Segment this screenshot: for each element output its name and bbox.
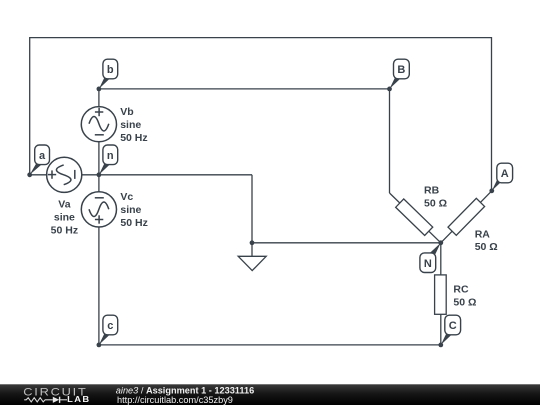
wire b to Vb top [98, 89, 100, 108]
svg-text:aine3 / Assignment 1 - 1233111: aine3 / Assignment 1 - 12331116 [116, 385, 254, 395]
svg-text:n: n [107, 150, 114, 162]
footer bar [0, 384, 540, 405]
svg-text:http://circuitlab.com/c35zby9: http://circuitlab.com/c35zby9 [117, 395, 233, 405]
svg-text:A: A [501, 168, 509, 180]
resistor RB [396, 199, 433, 235]
label RC [453, 283, 476, 308]
node C junction [438, 343, 443, 348]
voltage source Vc [81, 192, 116, 227]
svg-text:RC: RC [453, 283, 469, 295]
wire c to C [99, 344, 441, 346]
svg-text:C: C [449, 320, 457, 332]
node b junction [97, 87, 102, 92]
wire ground stub [251, 243, 253, 256]
svg-text:Vc: Vc [120, 191, 133, 203]
node n junction [97, 172, 102, 177]
svg-text:RA: RA [475, 228, 491, 240]
node a junction [27, 172, 32, 177]
resistor RC [435, 275, 447, 314]
svg-text:b: b [107, 64, 114, 76]
wire Vb bottom through n to Vc top [98, 142, 100, 193]
svg-text:Va: Va [58, 199, 70, 211]
wire RB diagonal [390, 193, 441, 243]
svg-text:50 Ω: 50 Ω [424, 198, 447, 210]
svg-text:RB: RB [424, 184, 440, 196]
svg-text:Vb: Vb [120, 106, 133, 118]
svg-text:LAB: LAB [67, 395, 90, 404]
svg-text:50 Hz: 50 Hz [120, 217, 147, 229]
node A junction [489, 188, 494, 193]
node flag N [420, 243, 441, 273]
label Vb [120, 106, 147, 144]
svg-text:50 Hz: 50 Hz [120, 132, 147, 144]
svg-text:sine: sine [54, 212, 75, 224]
wire Vc bottom to c [98, 227, 100, 345]
wire C up through RC to N [440, 243, 442, 345]
svg-text:B: B [397, 64, 405, 76]
node flag C [441, 315, 461, 345]
node flag B [390, 59, 410, 89]
svg-text:c: c [107, 320, 113, 332]
svg-text:sine: sine [120, 119, 141, 131]
node flag c [99, 315, 118, 345]
svg-text:50 Hz: 50 Hz [51, 224, 78, 236]
wire Va right pin through n to mid corner [81, 174, 252, 176]
node flag n [99, 145, 118, 175]
svg-text:50 Ω: 50 Ω [475, 241, 498, 253]
wire RA diagonal [441, 191, 492, 243]
wire mid corner down to ground node [251, 175, 253, 243]
node flag a [30, 145, 50, 175]
footer logo diode [53, 397, 59, 403]
resistor RA [448, 198, 485, 235]
ground [238, 256, 266, 270]
voltage source Vb [81, 107, 116, 142]
node flag A [492, 163, 513, 191]
label Va [51, 199, 78, 237]
wire outer loop a to A [30, 38, 492, 191]
svg-text:50 Ω: 50 Ω [453, 297, 476, 309]
wire B down to RB [389, 89, 391, 193]
svg-text:N: N [424, 258, 432, 270]
label RB [424, 184, 447, 209]
wire a to Va left pin [30, 174, 48, 176]
label RA [475, 228, 498, 253]
svg-text:sine: sine [120, 204, 141, 216]
footer logo resistor zigzag [24, 398, 53, 402]
node c junction [97, 343, 102, 348]
svg-text:a: a [39, 150, 46, 162]
label Vc [120, 191, 147, 229]
node B junction [387, 87, 392, 92]
node flag b [99, 59, 118, 89]
voltage source Va [47, 157, 82, 192]
node N junction [438, 240, 443, 245]
wire b to B [99, 88, 390, 90]
ground junction [250, 240, 255, 245]
wire ground node to N [252, 242, 441, 244]
